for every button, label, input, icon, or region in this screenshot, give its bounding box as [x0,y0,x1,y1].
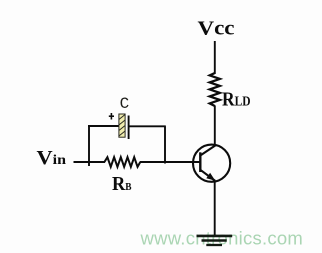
svg-text:Vcc: Vcc [198,17,235,39]
resistor R_LD [210,73,220,106]
branch right vertical wire [164,126,166,163]
branch top-left horizontal wire [88,125,119,127]
wire Vcc to RLD [214,41,216,74]
svg-text:C: C [120,95,130,113]
branch left vertical wire [88,125,90,166]
capacitor C positive plate (hatched) [119,114,125,137]
wire Vin to RB [74,161,106,163]
wire emitter to ground [214,181,216,236]
wire RLD to collector [214,106,216,147]
transistor Q1 body circle [193,145,230,182]
ground bar 1 [197,235,233,238]
transistor emitter diagonal [200,170,215,181]
wire RB to base [140,161,200,163]
capacitor C negative plate [128,116,130,140]
branch top-right horizontal wire [130,125,166,127]
ground bar 3 [206,244,222,246]
transistor base bar [199,152,201,172]
polarity plus sign [109,113,114,120]
ground bar 2 [202,239,227,241]
transistor collector diagonal [200,145,215,155]
resistor RB [104,157,140,167]
emitter arrow [206,173,215,181]
